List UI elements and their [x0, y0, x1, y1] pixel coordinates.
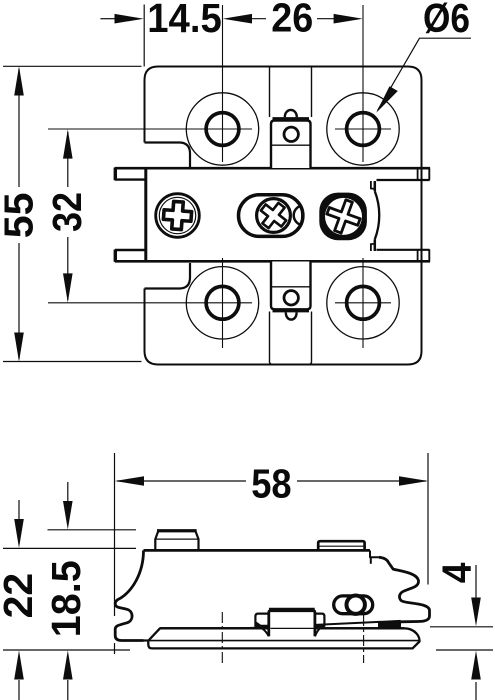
- center block: [269, 611, 315, 637]
- svg-text:55: 55: [0, 193, 41, 239]
- centerline dashes: [222, 612, 363, 663]
- right ear: [315, 614, 325, 626]
- channel lines: [270, 67, 312, 364]
- svg-text:14.5: 14.5: [147, 0, 222, 41]
- body top edge: [144, 549, 371, 552]
- 14.5 arrow left: [100, 18, 116, 20]
- cam screw (middle): [239, 195, 314, 237]
- wing tab left top: [115, 178, 146, 180]
- hole bottom-left: [48, 258, 259, 348]
- 58 dim line: [117, 480, 246, 482]
- left ear: [255, 614, 268, 626]
- svg-text:18.5: 18.5: [43, 560, 89, 637]
- hole bottom-right: [327, 258, 399, 348]
- 4 arrows: [475, 565, 477, 599]
- right notch block: [370, 551, 379, 558]
- 18.5 arrows: [67, 482, 69, 503]
- flange: [144, 628, 420, 648]
- 55 dim: [18, 69, 20, 187]
- wing tab right bottom: [377, 249, 430, 251]
- left bump: [155, 531, 198, 549]
- 22 arrows: [18, 500, 20, 521]
- wing tab left bottom: [115, 249, 146, 251]
- bar right edge segments and notch steps: [374, 181, 377, 191]
- left end profile: [115, 550, 143, 640]
- 58 ext lines: [114, 453, 116, 616]
- cam oval side: [334, 596, 373, 614]
- central bottom tab: [271, 262, 311, 320]
- svg-text:4: 4: [434, 562, 480, 583]
- ext lines: [143, 5, 145, 67]
- central bar: [115, 168, 430, 262]
- svg-text:26: 26: [271, 0, 313, 40]
- svg-text:22: 22: [0, 573, 41, 619]
- hole top-right: [327, 5, 399, 165]
- 26 arrows: [249, 18, 266, 20]
- bulge arc around right screw: [375, 191, 379, 239]
- left screw: [156, 194, 200, 238]
- base fillets: [255, 626, 268, 636]
- diameter leader: [378, 38, 472, 110]
- hole top-left: [48, 5, 259, 165]
- 4 ext lines: [430, 626, 493, 628]
- svg-text:58: 58: [251, 460, 291, 506]
- plate outline: [145, 67, 422, 365]
- right bump: [318, 541, 364, 549]
- wing tab right top: [377, 179, 430, 181]
- central top tab: [271, 110, 311, 168]
- 32 dim: [67, 132, 69, 187]
- right end profile: [379, 557, 430, 622]
- right screw: [319, 193, 367, 241]
- arm bottom sloping line (drawn first, block covers): [190, 621, 401, 631]
- 22 / 18.5 ext lines: [3, 547, 136, 549]
- svg-text:32: 32: [44, 192, 90, 232]
- svg-text:Ø6: Ø6: [423, 0, 470, 41]
